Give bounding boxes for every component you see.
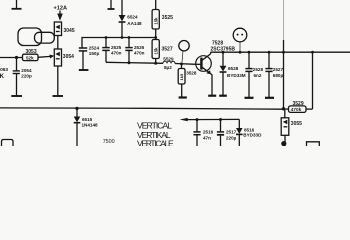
capacitor 2527 <box>265 51 283 98</box>
svg-text:10K: 10K <box>0 74 5 80</box>
resistor 3063 (cut at edge) <box>0 67 8 80</box>
capacitor 2516 <box>193 118 213 146</box>
svg-text:3054: 3054 <box>63 54 74 60</box>
riser x283 top (faint) <box>283 0 285 40</box>
inductor 5529 <box>163 56 175 70</box>
wire arrow (signal in) <box>180 118 188 121</box>
svg-text:VERTICALE: VERTICALE <box>137 139 174 146</box>
node bus-right <box>282 107 285 110</box>
ground 2528 <box>245 97 254 99</box>
wire 3045 to 3054 <box>57 36 59 50</box>
capacitor 2054 <box>13 58 32 96</box>
svg-text:6524: 6524 <box>127 15 138 20</box>
svg-text:8µ2: 8µ2 <box>164 65 172 70</box>
svg-text:3045: 3045 <box>64 28 75 34</box>
svg-text:220p: 220p <box>21 74 32 79</box>
transistor 7528 <box>196 40 236 95</box>
svg-text:52k: 52k <box>26 56 34 61</box>
svg-text:3527: 3527 <box>162 47 173 53</box>
svg-text:220µ: 220µ <box>226 135 237 140</box>
ground 2054 <box>11 95 22 97</box>
connector outline (rounded) <box>18 28 42 46</box>
svg-text:2054: 2054 <box>21 68 32 73</box>
resistor 3527 <box>152 40 173 65</box>
resistor 3053 <box>23 49 39 60</box>
resistor 3525 <box>152 0 173 40</box>
wire 3053 to 3054 wiper <box>38 55 51 58</box>
box bottom-right <box>307 142 320 146</box>
svg-text:2528: 2528 <box>253 67 264 72</box>
svg-text:BYD33M: BYD33M <box>227 73 246 78</box>
potentiometer 3045 <box>54 22 75 36</box>
ground top-left <box>12 0 22 9</box>
svg-text:7500: 7500 <box>103 139 115 145</box>
capacitor 2528 <box>245 51 263 98</box>
connector outline 2 <box>35 32 55 43</box>
svg-text:2526: 2526 <box>134 45 145 50</box>
ground 2527 <box>265 97 274 99</box>
svg-text:470n: 470n <box>111 51 122 56</box>
capacitor 2526 <box>125 36 144 64</box>
svg-text:2527: 2527 <box>273 67 284 72</box>
svg-text:1k5: 1k5 <box>179 73 184 80</box>
potentiometer 3055 <box>281 110 302 146</box>
svg-text:BYD33D: BYD33D <box>243 133 262 138</box>
svg-text:3055: 3055 <box>291 121 302 127</box>
svg-text:470k: 470k <box>291 107 302 112</box>
svg-text:6516: 6516 <box>244 127 255 132</box>
diode 6515 <box>74 107 98 146</box>
capacitor 2524 <box>79 46 100 70</box>
resistor 3528 <box>178 64 197 97</box>
svg-text:3063: 3063 <box>0 67 8 73</box>
ground emitter <box>208 95 216 97</box>
resistor 3529 <box>284 51 314 113</box>
svg-text:150p: 150p <box>89 51 100 56</box>
test point circle <box>179 41 189 51</box>
svg-text:15k: 15k <box>153 47 158 55</box>
ground 6528 <box>219 95 227 97</box>
svg-text:6515: 6515 <box>82 117 93 122</box>
rail to caps <box>82 38 156 49</box>
svg-text:2525: 2525 <box>111 45 122 50</box>
ground bus <box>0 108 284 109</box>
svg-text:2516: 2516 <box>203 129 214 134</box>
capacitor 2525 <box>102 36 121 62</box>
potentiometer 3054 <box>54 49 74 66</box>
svg-text:6n2: 6n2 <box>254 73 262 78</box>
title VERTICAL <box>137 121 174 149</box>
diode 6524 <box>119 0 142 39</box>
diode 6516 <box>236 127 262 146</box>
node junction <box>15 56 18 59</box>
capacitor 2517 electrolytic <box>217 118 237 146</box>
svg-text:6528: 6528 <box>228 66 239 71</box>
svg-text:5529: 5529 <box>163 56 174 61</box>
svg-text:3528: 3528 <box>186 71 197 76</box>
svg-text:47n: 47n <box>203 135 211 140</box>
svg-text:2517: 2517 <box>226 129 237 134</box>
svg-text:3525: 3525 <box>162 15 173 21</box>
supply +12A <box>54 6 68 21</box>
svg-text:AA148: AA148 <box>127 21 142 26</box>
svg-text:1N4148: 1N4148 <box>82 123 99 128</box>
ground 3054 <box>53 95 64 97</box>
node base junction <box>180 62 183 65</box>
svg-text:680p: 680p <box>273 73 284 78</box>
box bottom-left <box>2 140 14 147</box>
base wire <box>106 62 163 63</box>
ground top-mid <box>108 0 115 9</box>
diode 6528 <box>220 51 246 96</box>
svg-text:2524: 2524 <box>89 46 100 51</box>
svg-text:15k: 15k <box>153 17 158 25</box>
wire 3054 to ground <box>57 66 59 96</box>
test point circle 2 <box>233 28 247 53</box>
collector rail <box>211 51 350 53</box>
svg-text:470n: 470n <box>134 51 145 56</box>
ground 2524 <box>79 69 89 71</box>
riser x283 mid <box>283 52 285 109</box>
ground 3528 <box>179 96 187 98</box>
wire left edge <box>0 57 23 59</box>
